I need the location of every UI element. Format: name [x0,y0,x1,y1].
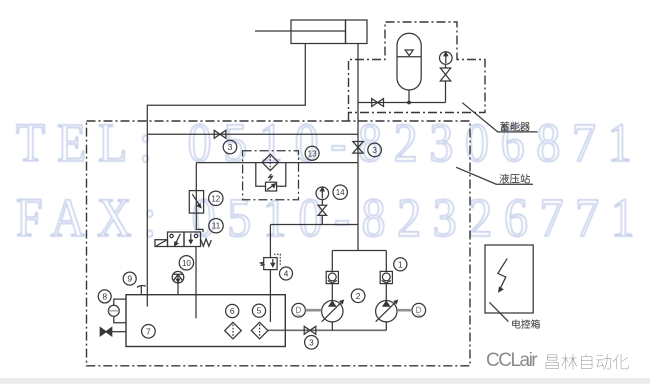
accumulator shell [397,33,421,90]
wire: suction line [268,329,386,331]
motor right [412,303,426,317]
hydraulic station boundary [87,121,471,366]
gauge needle [445,55,447,63]
svg-text:1: 1 [398,259,403,269]
balloon 3 [305,336,319,350]
relief valve 4 body [264,258,277,270]
svg-text:14: 14 [336,188,345,197]
level gauge 8 [108,305,119,316]
balloon 2 [351,289,365,303]
balloon 10 [179,256,193,270]
balloon 5 [252,304,265,317]
pressure gauge [440,52,453,65]
label 液压站 [500,174,530,183]
valve 11 left port circle [170,234,173,237]
breather 9 [137,286,146,295]
drain pipe [112,331,126,333]
valve on bypass line (3) [214,130,226,138]
pressure gauge 14 [316,187,329,200]
balloon 8 [98,290,111,303]
bypass spring mark [269,174,272,181]
balloon 13 [305,146,319,160]
filter unit boundary [243,151,299,200]
watermark TEL line [16,115,643,170]
pump left [322,301,343,322]
coupling right [397,309,412,312]
valve 11 right path [190,234,192,241]
level indicator stem [177,283,179,295]
wire: right pump outlet [385,284,387,301]
balloon 11 [209,219,223,233]
balloon 3 [223,140,237,154]
throttle valve 12 body [189,191,203,214]
wire: accumulator feed [358,102,446,104]
wire: left pump outlet [331,284,333,301]
svg-text:3: 3 [309,337,314,347]
relief valve 4 poppet [272,259,274,264]
gauge 14 drop [321,215,323,224]
svg-text:5: 5 [257,306,262,316]
solenoid valve 11 left box [168,232,185,247]
gauge stem [445,81,447,103]
wire: bypass line [147,133,358,135]
gauge link [445,64,447,68]
filter element [269,156,271,169]
svg-text:10: 10 [182,259,191,268]
wire: left pump suction [331,322,333,330]
gauge 14 needle [321,190,323,199]
relief valve 4 spring [261,262,264,265]
throttle valve 12 arrow [192,194,199,205]
svg-text:7: 7 [146,326,151,336]
coupling left [305,309,321,312]
leader 蓄能器 [462,103,537,132]
logo 昌林自动化 [546,354,629,370]
drain valve [100,328,111,336]
wire: left check feed [331,251,333,272]
gauge shutoff valve [440,68,450,81]
gauge 14 stem [321,200,323,206]
watermark FAX line [16,190,646,245]
wire: relief valve 4 drain [269,270,271,322]
strainer 6 element [232,325,234,338]
svg-text:4: 4 [284,269,289,279]
balloon 9 [123,272,136,285]
accumulator gas triangle [405,50,413,56]
electric control box [485,245,533,313]
gauge 14 shutoff valve [318,205,327,215]
piston rod [255,30,345,32]
level indicator 10 [172,271,184,283]
svg-text:2: 2 [356,291,361,301]
level indicator arrow [177,274,179,279]
valve 11 spring [201,239,212,246]
wire: relief valve 4 feed [269,225,271,258]
svg-text:11: 11 [212,222,221,231]
wire: pressure main vertical [357,44,359,251]
motor left [292,303,306,317]
CCLair logo text [486,354,536,368]
wire: right check feed [385,251,387,272]
level gauge 8 piping [114,299,126,323]
bottom gray strip [0,378,650,384]
check valve left [326,271,338,283]
leader to label [489,302,508,321]
filter diamond [262,154,278,170]
leader 液压站 [456,167,533,184]
balloon 6 [226,304,239,317]
accumulator separator [397,56,421,58]
svg-text:12: 12 [211,194,220,203]
valve 11 left diagonal [176,234,180,243]
pump right [376,301,397,322]
wire: cylinder return to tank [147,44,305,307]
svg-text:3: 3 [372,145,377,155]
lightning bolt [498,259,507,288]
bypass valve body [266,182,277,191]
balloon 12 [209,191,223,205]
bypass valve arrow [267,185,274,190]
check valve right [380,271,392,283]
solenoid diagonal [156,240,167,246]
bypass loop [256,163,286,187]
balloon 14 [333,185,347,199]
balloon 7 [142,325,156,339]
accumulator drop pipe [408,90,410,103]
solenoid valve 11 right box [184,232,201,247]
strainer 5 element [259,325,261,338]
cylinder end block [346,20,368,44]
label 蓄能器 [500,122,530,131]
balloon 4 [280,267,293,280]
label 电控箱 [512,320,539,329]
strainer 5 [251,322,268,339]
balloon 3 [368,143,382,157]
oil tank [126,295,285,347]
solenoid coil [155,240,168,247]
level gauge line [108,310,119,312]
wire: valve 11 tank return [195,247,197,319]
accumulator isolation valve [372,99,384,107]
svg-text:6: 6 [230,306,235,316]
wire: right pump suction [385,322,387,330]
junction dot [407,101,411,105]
level indicator detail [173,274,183,281]
svg-text:9: 9 [127,274,132,284]
strainer 6 [225,322,242,339]
wire: pump outlet header [332,250,386,252]
svg-text:13: 13 [308,149,317,158]
wire: filter circulation line [196,162,358,164]
valve on pressure main (3) [353,142,363,154]
wire: throttle branch [196,163,203,233]
svg-text:8: 8 [102,291,107,301]
valve 11 right port circle [194,234,197,237]
relief valve 4 pilot (dotted) [274,254,280,265]
accumulator enclosure boundary [349,22,486,121]
valve on suction line (3) [304,326,316,334]
svg-text:3: 3 [228,142,233,152]
wire: manifold line [270,224,358,226]
balloon 1 [394,258,407,271]
cylinder body [291,20,346,44]
